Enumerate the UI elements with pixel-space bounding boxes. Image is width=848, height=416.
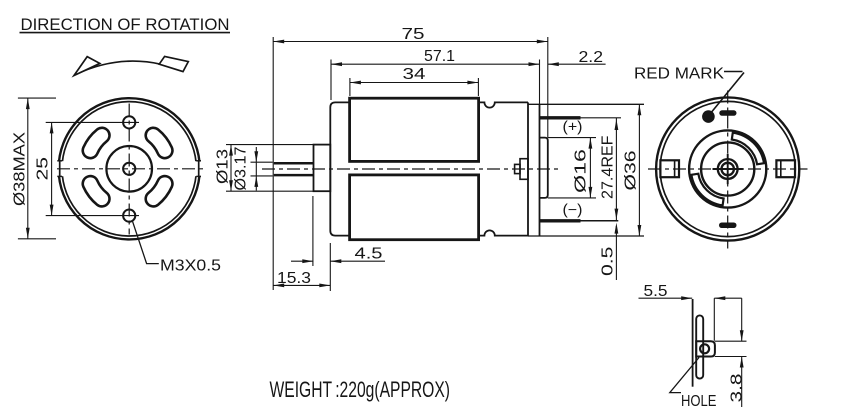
vent slot bottom-right — [146, 176, 173, 206]
cap face vertical line — [692, 299, 694, 387]
terminal detail view — [639, 283, 747, 410]
dimension 75 line — [273, 41, 548, 43]
leader HOLE diagonal — [670, 358, 699, 393]
terminal minus — [540, 219, 581, 222]
dimension Ø36 line — [638, 104, 640, 236]
side view motor — [215, 26, 645, 291]
dimension 25 line — [51, 122, 53, 215]
svg-text:Ø38MAX: Ø38MAX — [12, 131, 29, 206]
dimension 3.8 upper line with down arrow — [741, 298, 743, 341]
svg-text:4.5: 4.5 — [355, 246, 383, 263]
magnet housing bottom thick rect — [350, 175, 479, 240]
rear bearing ring inner — [722, 163, 734, 175]
mounting hole top — [123, 116, 135, 128]
dimension Ø16 extension lines — [548, 137, 596, 139]
svg-text:M3X0.5: M3X0.5 — [160, 258, 221, 275]
rear right tab — [776, 160, 795, 177]
svg-text:75: 75 — [402, 26, 425, 43]
mounting hole bottom — [123, 210, 135, 222]
dimension 5.5 left line with arrow — [639, 297, 693, 299]
rotation arrow arc — [76, 61, 162, 74]
rear mid circle — [701, 142, 754, 195]
bottom vent slot filled — [719, 223, 737, 229]
rear bearing bump inner — [515, 164, 520, 173]
dimension 0.5 line with up arrow — [615, 226, 617, 280]
extension line boss left — [312, 196, 314, 266]
svg-text:25: 25 — [35, 157, 52, 181]
extension lines 3.8 — [715, 340, 747, 342]
dimension Ø38MAX extension lines — [18, 97, 56, 99]
extension line can face — [330, 60, 332, 101]
endbell top edge and Ø36 extension — [528, 103, 644, 105]
title DIRECTION OF ROTATION — [20, 15, 231, 34]
shaft bottom edge — [274, 174, 314, 177]
rear left tab — [660, 160, 679, 177]
magnet housing top thick rect — [350, 98, 479, 161]
front vertical centerline — [128, 104, 130, 235]
svg-text:57.1: 57.1 — [424, 48, 455, 65]
dimension 5.5 right line with arrow — [714, 297, 741, 299]
dimension Ø38MAX line — [27, 98, 29, 239]
svg-text:2.2: 2.2 — [579, 49, 604, 66]
svg-text:Ø13: Ø13 — [215, 149, 232, 184]
svg-text:(−): (−) — [563, 203, 583, 219]
extension line endbell face — [539, 60, 541, 105]
brush arc bottom-left — [691, 174, 723, 206]
rear brush card circle — [689, 130, 766, 207]
dimension Ø13 line — [230, 145, 232, 192]
svg-text:15.3: 15.3 — [277, 270, 311, 287]
rear bearing bump outer — [520, 159, 528, 180]
dimension 3.8 lower line with up arrow — [741, 357, 743, 408]
can rear top edge with notch — [479, 102, 528, 107]
front outer flange circle — [59, 98, 200, 239]
dimension 4.5 right piece — [330, 260, 385, 262]
rear view motor end cap — [634, 65, 808, 248]
dimension 25 extension lines — [46, 121, 139, 123]
svg-text:RED MARK: RED MARK — [634, 65, 725, 82]
svg-text:3.8: 3.8 — [729, 373, 746, 402]
red mark dot — [702, 110, 715, 123]
svg-text:Ø36: Ø36 — [623, 151, 640, 191]
terminal plus — [540, 116, 581, 119]
brush arc top-right — [732, 133, 764, 165]
svg-text:WEIGHT :220g(APPROX): WEIGHT :220g(APPROX) — [270, 377, 451, 402]
left side tab — [55, 161, 64, 176]
rear outer circle — [656, 97, 799, 240]
terminal plus extension — [581, 117, 622, 119]
dimension 4.5 left piece — [291, 260, 313, 262]
rotation arrow tail flag — [159, 56, 188, 71]
rear horizontal centerline — [648, 168, 808, 170]
rear center crosshair — [727, 154, 729, 184]
vent slot bottom-left — [83, 176, 110, 206]
shaft top edge — [274, 162, 314, 165]
leader RED MARK diagonal — [711, 73, 744, 114]
rotation arrowhead — [74, 57, 100, 76]
extension line cap end — [547, 37, 549, 138]
vent slot top-right — [146, 128, 173, 158]
dimension 27.4REF line — [615, 118, 617, 221]
extension lines 34 — [349, 78, 351, 96]
svg-text:Ø16: Ø16 — [573, 149, 590, 193]
can end vertical — [527, 102, 529, 235]
svg-text:0.5: 0.5 — [600, 247, 617, 277]
svg-text:Ø3.17: Ø3.17 — [233, 147, 250, 191]
front shaft circle — [123, 163, 135, 175]
svg-text:HOLE: HOLE — [681, 393, 717, 410]
vent slot top-left — [83, 128, 110, 158]
rear bearing ring outer — [718, 159, 738, 179]
dimension Ø3.17 line with outside arrows — [255, 147, 257, 191]
terminal minus extension — [581, 220, 619, 222]
extension line shaft tip — [272, 37, 274, 290]
leader M3X0.5 — [133, 222, 159, 264]
dimension 57.1 line — [331, 63, 540, 65]
svg-text:34: 34 — [403, 66, 426, 83]
front inner flange circle — [62, 102, 196, 236]
brush cap — [540, 138, 548, 198]
front view motor face — [12, 98, 222, 274]
rear vertical centerline — [727, 91, 729, 249]
endbell bottom edge and Ø36 extension — [528, 235, 644, 237]
dimension Ø13 extension lines — [226, 144, 314, 146]
dimension 15.3 line — [273, 284, 330, 286]
svg-text:27.4REF: 27.4REF — [600, 136, 617, 200]
can front face with rounded corners — [330, 102, 349, 235]
svg-text:5.5: 5.5 — [644, 283, 668, 300]
leader RED MARK horizontal tick — [724, 71, 743, 73]
front horizontal centerline — [57, 168, 206, 170]
side view centerline — [262, 168, 560, 170]
dimension Ø16 line — [589, 138, 591, 198]
terminal hole — [700, 344, 709, 353]
extension line tab end — [713, 298, 715, 341]
terminal tab — [696, 341, 715, 356]
svg-text:(+): (+) — [563, 120, 583, 136]
endbell right vertical — [539, 104, 541, 236]
bearing boss rectangle — [314, 145, 331, 192]
rear rim inner circle — [660, 101, 795, 236]
right side tab — [195, 161, 204, 176]
dimension 34 line — [350, 82, 479, 84]
extension line can face lower — [329, 243, 331, 291]
terminal strip — [696, 315, 703, 378]
front bearing boss circle — [106, 146, 152, 192]
svg-text:DIRECTION OF ROTATION: DIRECTION OF ROTATION — [21, 15, 230, 34]
can rear bottom edge with notch — [479, 230, 528, 235]
top vent slot filled — [719, 110, 736, 116]
dimension 2.2 line — [548, 63, 606, 65]
dimension Ø3.17 extension lines — [251, 161, 273, 163]
